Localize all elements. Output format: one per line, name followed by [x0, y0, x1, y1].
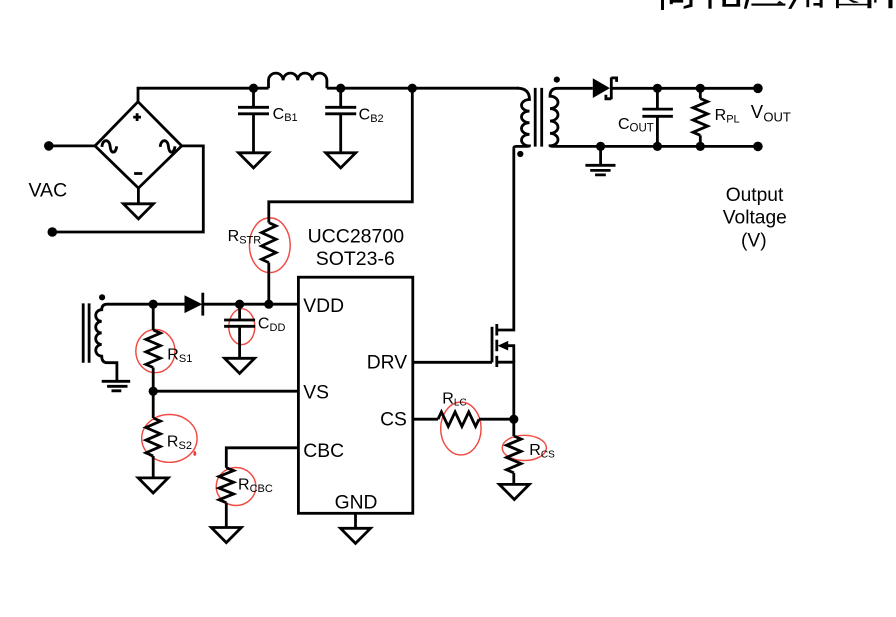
svg-text:R: R — [715, 107, 727, 124]
svg-text:GND: GND — [335, 493, 378, 514]
svg-text:STR: STR — [239, 234, 261, 246]
svg-text:R: R — [167, 433, 179, 450]
transformer T1 primary polarity dot — [517, 151, 523, 157]
wire DRV pin to MOSFET gate — [413, 361, 492, 364]
svg-text:CBC: CBC — [250, 483, 273, 495]
red circle around RSTR — [249, 218, 290, 273]
node CS junction — [509, 415, 518, 424]
diode D aux to VDD — [185, 293, 203, 316]
red circle around RCBC — [216, 468, 256, 506]
capacitor COUT — [618, 88, 673, 146]
svg-text:OUT: OUT — [763, 109, 791, 124]
svg-text:V: V — [751, 101, 764, 122]
transformer T1 secondary winding — [550, 88, 558, 146]
capacitor CB1 — [238, 88, 298, 168]
wire VAC top terminal to bridge left — [49, 144, 95, 147]
inductor input filter — [269, 73, 327, 88]
svg-text:S2: S2 — [179, 440, 192, 452]
svg-text:R: R — [238, 477, 250, 494]
svg-text:R: R — [167, 347, 179, 364]
node CDD junction — [235, 300, 244, 309]
resistor RCS — [499, 419, 555, 499]
svg-text:B1: B1 — [284, 112, 297, 124]
svg-text:DD: DD — [270, 322, 286, 334]
svg-text:R: R — [228, 228, 240, 245]
resistor RCBC — [211, 448, 298, 543]
node VS junction — [149, 387, 158, 396]
svg-text:OUT: OUT — [630, 123, 654, 135]
wire inductor to CB2 to primary node — [327, 87, 519, 90]
transformer T1 primary winding — [514, 88, 530, 148]
svg-text:SOT23-6: SOT23-6 — [316, 248, 395, 270]
svg-text:VS: VS — [303, 382, 329, 403]
earth ground below aux winding — [102, 381, 131, 391]
red circle around RLC — [441, 402, 481, 455]
transformer T1 secondary polarity dot — [554, 77, 560, 83]
wire aux winding to VDD pin — [153, 303, 298, 306]
node CB1 junction — [249, 84, 258, 93]
partial chinese title text cut off at top edge — [661, 0, 893, 10]
node VAC bottom terminal — [48, 227, 58, 237]
node top bus to RSTR branch — [408, 84, 417, 93]
resistor RPL — [693, 88, 740, 146]
svg-text:Output: Output — [726, 185, 784, 206]
svg-text:R: R — [442, 390, 454, 407]
label output voltage caption — [723, 185, 787, 252]
node VOUT bottom terminal — [753, 142, 763, 152]
node VOUT top terminal — [753, 84, 763, 94]
svg-text:S1: S1 — [179, 353, 192, 365]
svg-text:(V): (V) — [741, 230, 767, 251]
earth ground secondary — [585, 146, 615, 175]
svg-text:CS: CS — [541, 449, 555, 460]
resistor RS1 — [146, 304, 192, 391]
wire CS pin to RLC — [413, 418, 438, 421]
bridge rectifier — [95, 102, 182, 188]
resistor RLC — [438, 390, 479, 426]
node RPL bottom junction — [696, 142, 705, 151]
svg-text:CS: CS — [380, 409, 407, 430]
svg-text:LC: LC — [454, 398, 467, 409]
red circle around RS2 — [142, 415, 197, 463]
svg-text:PL: PL — [726, 114, 739, 126]
wire bridge right to VAC bottom terminal — [52, 146, 203, 232]
transistor Q1 MOSFET — [492, 148, 514, 419]
svg-text:VDD: VDD — [303, 296, 344, 317]
transformer T1 core — [535, 88, 542, 147]
svg-text:C: C — [273, 106, 285, 123]
wire secondary to output diode — [558, 87, 593, 90]
node COUT top junction — [653, 84, 662, 93]
node RPL top junction — [696, 84, 705, 93]
aux winding transformer core — [83, 303, 89, 362]
label VOUT — [751, 101, 791, 125]
wire VS node to VS pin — [153, 390, 298, 393]
ground below bridge — [123, 188, 153, 219]
wire secondary bottom rail — [557, 145, 758, 148]
resistor RSTR — [228, 223, 276, 305]
node RS1 top junction — [149, 300, 158, 309]
diode D2 schottky output — [593, 77, 617, 99]
aux winding coil — [96, 304, 154, 381]
IC U1 UCC28700 box — [298, 277, 412, 513]
red circle around RS1 — [136, 330, 175, 373]
svg-text:CBC: CBC — [303, 441, 344, 462]
node RSTR bottom junction — [264, 300, 273, 309]
node CB2 junction — [336, 84, 345, 93]
svg-text:VAC: VAC — [29, 180, 68, 202]
capacitor CB2 — [325, 88, 383, 168]
ground IC GND pin — [341, 513, 371, 543]
resistor RS2 — [138, 391, 192, 493]
svg-text:C: C — [359, 107, 371, 124]
wire bridge top vertex to top bus — [138, 88, 269, 102]
wire output diode to VOUT terminal — [611, 87, 758, 90]
wire RLC to CS node — [479, 418, 514, 421]
svg-text:B2: B2 — [370, 113, 383, 125]
capacitor CDD — [224, 304, 285, 373]
red circle around CDD — [229, 309, 255, 345]
svg-text:R: R — [529, 442, 541, 459]
svg-text:UCC28700: UCC28700 — [308, 226, 405, 248]
node VAC top terminal — [44, 141, 54, 151]
svg-text:C: C — [258, 315, 270, 332]
node secondary ground junction — [596, 142, 605, 151]
svg-text:Voltage: Voltage — [723, 207, 787, 228]
red mark below RS2 circle — [193, 451, 196, 456]
aux winding polarity dot — [99, 294, 105, 300]
svg-text:C: C — [618, 116, 630, 133]
wire top bus down and left to RSTR — [269, 88, 413, 222]
red circle around RCS — [502, 435, 546, 460]
node COUT bottom junction — [653, 142, 662, 151]
svg-text:DRV: DRV — [367, 353, 408, 374]
red annotation ellipses group (drawn under black ink) — [136, 218, 547, 506]
